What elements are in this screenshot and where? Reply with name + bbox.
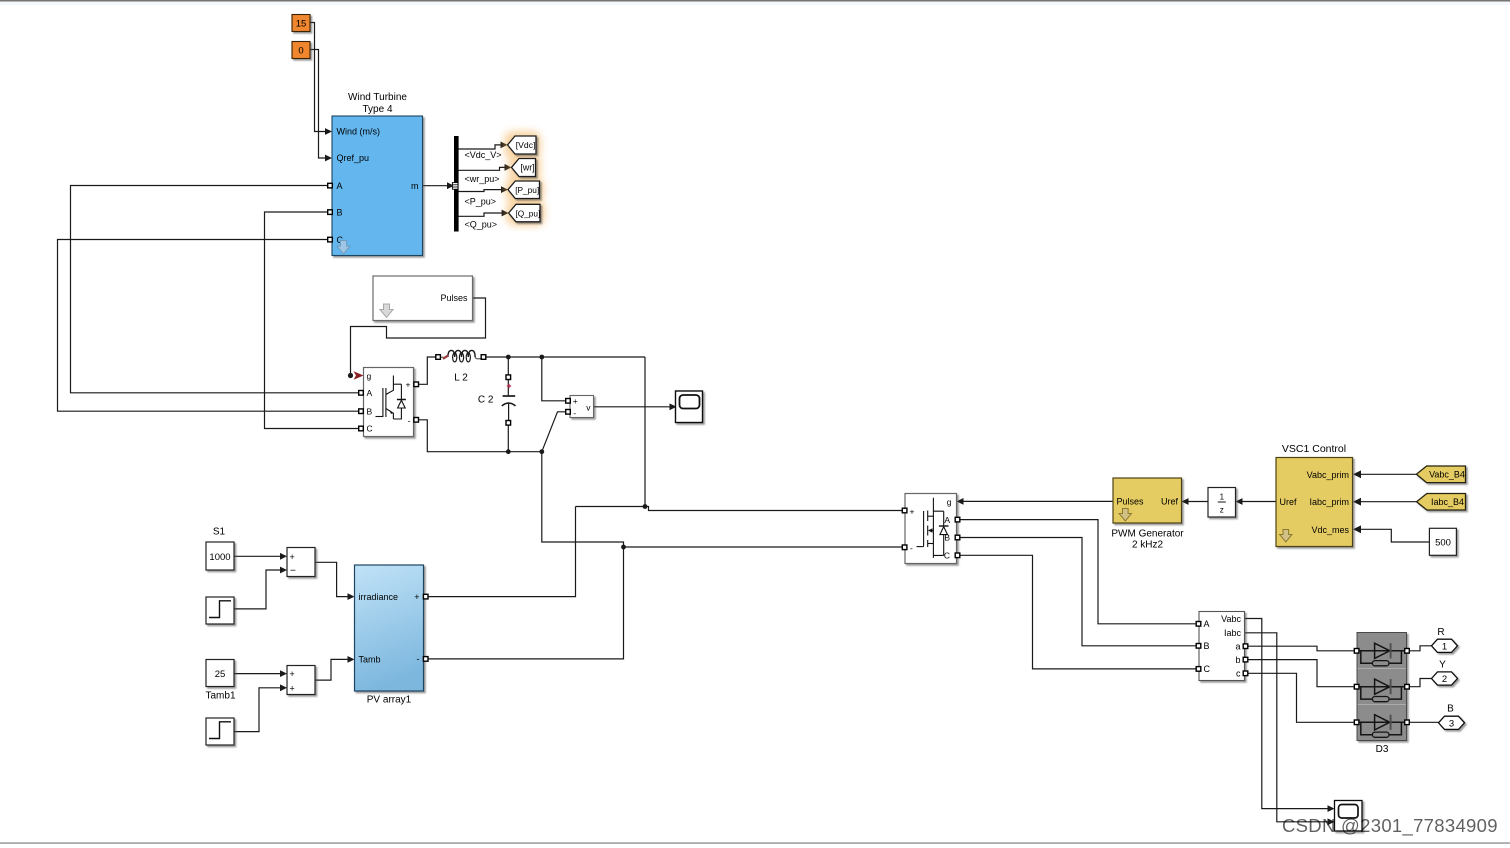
red arrowhead into bridge1 gate	[354, 371, 364, 380]
port square inverter A	[955, 517, 960, 522]
wire constant500 to VSC1 Vdc_mes	[1360, 529, 1430, 542]
svg-text:A: A	[367, 388, 373, 398]
wire top rail junction to voltmeter plus	[542, 357, 567, 401]
svg-text:2 kHz2: 2 kHz2	[1132, 540, 1164, 551]
wire PWM pulses to inverter gate g	[963, 500, 1113, 502]
svg-text:+: +	[290, 669, 295, 679]
sum block sum1	[287, 548, 315, 577]
svg-text:Vabc_prim: Vabc_prim	[1307, 470, 1349, 480]
wire DC top rail down right side	[644, 357, 646, 507]
wire minus node down to PV minus	[428, 547, 624, 659]
svg-text:Iabc_prim: Iabc_prim	[1309, 497, 1349, 507]
svg-text:B: B	[1204, 641, 1210, 651]
port square VI A	[1196, 622, 1201, 627]
svg-text:-: -	[417, 654, 420, 664]
wire constant1000 to sum1 plus	[234, 555, 281, 557]
svg-text:c: c	[1236, 669, 1241, 679]
svg-text:+: +	[406, 380, 411, 390]
wire bus out2 to Goto wr	[459, 167, 507, 170]
Wind Turbine Type 4 block U1	[332, 92, 423, 256]
wire From Iabc_B4 to VSC1	[1360, 501, 1417, 503]
wire unit delay to PWM Uref	[1188, 501, 1208, 503]
PV array1 block	[355, 565, 424, 706]
port square inverter minus	[902, 545, 907, 550]
wire DC top rail L2 to corner	[486, 356, 646, 358]
outport 2 label Y	[1432, 660, 1458, 686]
svg-text:500: 500	[1435, 538, 1451, 549]
arrowhead into Goto wr	[505, 164, 512, 171]
VSC1 Control block	[1276, 443, 1353, 547]
port square D3-2 right	[1405, 684, 1410, 689]
svg-text:A: A	[944, 515, 950, 525]
orange selection glow behind goto tags	[504, 131, 545, 226]
port square inverter B	[955, 535, 960, 540]
port square VI b	[1243, 657, 1248, 662]
svg-text:g: g	[367, 371, 372, 381]
wire PV plus riser	[428, 507, 576, 597]
svg-text:Vdc_mes: Vdc_mes	[1311, 525, 1349, 535]
port square WT C	[328, 237, 333, 242]
svg-text:PV array1: PV array1	[367, 695, 412, 706]
wire bottom rail down to minus node	[542, 452, 624, 547]
svg-text:B: B	[337, 207, 343, 217]
svg-text:+: +	[290, 552, 295, 562]
arrowhead into bus selector	[447, 182, 454, 189]
Goto tag wr	[512, 159, 536, 177]
svg-text:Qref_pu: Qref_pu	[337, 153, 370, 163]
svg-text:<Vdc_V>: <Vdc_V>	[465, 150, 502, 160]
svg-text:Iabc_B4: Iabc_B4	[1431, 497, 1464, 507]
sum block sum2	[287, 666, 315, 695]
constant S1 1000	[206, 527, 234, 571]
arrowhead into Qref_pu input	[325, 155, 332, 162]
wire DC plus node to inverter plus	[576, 507, 903, 511]
arrowhead into scope2 in1	[1328, 805, 1335, 812]
svg-text:2: 2	[1442, 674, 1447, 685]
port square L2 left	[436, 355, 441, 360]
svg-text:+: +	[290, 683, 295, 693]
arrowhead into PV irradiance	[348, 593, 355, 600]
wire VI a to diode D3-1	[1248, 646, 1356, 651]
svg-text:-: -	[910, 543, 913, 553]
outport 3 label B	[1439, 704, 1465, 730]
svg-text:L 2: L 2	[454, 373, 468, 384]
svg-text:[Vdc]: [Vdc]	[516, 140, 536, 150]
svg-text:b: b	[1235, 655, 1240, 665]
diode D3-2	[1357, 679, 1408, 702]
port square D3-2 left	[1354, 684, 1359, 689]
svg-text:VSC1 Control: VSC1 Control	[1282, 443, 1346, 455]
svg-text:-: -	[408, 415, 411, 425]
diode stack D3	[1357, 633, 1408, 756]
wire minus node to inverter minus	[624, 546, 903, 548]
svg-text:1000: 1000	[209, 552, 230, 563]
wire sum1 to PV irradiance	[315, 562, 349, 596]
port square VI a	[1243, 644, 1248, 649]
port square bridge1 minus	[414, 418, 419, 423]
svg-text:C: C	[367, 424, 373, 434]
scope1	[676, 391, 703, 423]
svg-text:B: B	[367, 406, 373, 416]
wire VI b to diode D3-2	[1248, 660, 1356, 687]
wire bus out3 to Goto P_pu	[459, 190, 503, 192]
svg-text:Vabc: Vabc	[1221, 614, 1241, 624]
port square C2 bottom	[506, 421, 511, 426]
svg-text:15: 15	[296, 19, 307, 30]
svg-text:Vabc_B4: Vabc_B4	[1429, 470, 1465, 480]
svg-text:<P_pu>: <P_pu>	[465, 197, 497, 207]
port square voltmeter minus	[566, 410, 571, 415]
wire inverter B to VI measurement B	[960, 538, 1197, 646]
wire constant0 to Qref_pu input	[310, 50, 326, 159]
svg-text:irradiance: irradiance	[359, 592, 399, 602]
arrowhead into Goto Vdc	[501, 142, 508, 149]
arrowhead into Goto Q_pu	[502, 210, 509, 217]
arrowhead into unit delay (points left)	[1236, 498, 1243, 505]
wire voltmeter v to scope1	[594, 406, 671, 408]
Pulses subsystem	[373, 276, 473, 321]
port square WT B	[328, 210, 333, 215]
svg-text:Type 4: Type 4	[362, 104, 392, 115]
port square VI B	[1196, 644, 1201, 649]
svg-text:S1: S1	[213, 527, 226, 538]
wire VSC1 Uref to unit delay	[1242, 501, 1276, 503]
inverter bridge2 U4	[905, 494, 957, 564]
scope2	[1335, 801, 1363, 832]
node top rail / C2	[506, 355, 511, 360]
svg-text:0: 0	[298, 46, 303, 57]
port square PV plus	[423, 594, 428, 599]
wire m output to bus selector	[423, 185, 449, 187]
svg-text:Tamb1: Tamb1	[205, 690, 235, 701]
node DC plus	[643, 504, 648, 509]
arrowhead into VSC1 Vdc_mes (points left)	[1353, 525, 1361, 533]
wire WT port C to bridge1 port B	[58, 240, 360, 412]
capacitor C2	[478, 380, 516, 422]
wire Pulses subsystem to bridge1 gate g	[351, 298, 486, 376]
node bottom rail / C2	[506, 449, 511, 454]
svg-text:PWM Generator: PWM Generator	[1111, 528, 1184, 539]
constant Tamb1 25	[205, 660, 235, 702]
port square L2 right	[481, 355, 486, 360]
PWM Generator block	[1111, 478, 1184, 551]
svg-text:[wr]: [wr]	[520, 163, 534, 173]
outport 1 label R	[1432, 627, 1458, 652]
voltage measurement U3	[570, 396, 594, 419]
constant 500	[1429, 528, 1456, 555]
svg-text:<Q_pu>: <Q_pu>	[465, 219, 498, 229]
arrowhead into sum1 plus	[280, 553, 287, 560]
Goto tag Vdc	[508, 136, 537, 154]
wire diode D3-1 to outport 1	[1409, 646, 1432, 651]
svg-text:3: 3	[1449, 718, 1454, 729]
arrowhead into PV Tamb	[348, 656, 355, 663]
port square bridge1 B	[359, 409, 364, 414]
wire step2 to sum2 plus2	[234, 688, 281, 732]
wire bridge1 plus to L2	[418, 357, 436, 384]
svg-text:C: C	[1204, 664, 1211, 674]
port square inverter plus	[902, 508, 907, 513]
step source step1	[206, 597, 234, 624]
svg-text:Y: Y	[1439, 660, 1446, 671]
constant 0	[292, 42, 310, 59]
arrowhead into VSC1 Iabc_prim (points left)	[1353, 498, 1361, 506]
wire diode D3-2 to outport 2	[1409, 679, 1432, 687]
diode D3-1	[1357, 643, 1408, 666]
svg-text:C: C	[944, 551, 950, 561]
svg-text:+: +	[573, 396, 578, 406]
inverter MOSFET symbol	[917, 498, 949, 558]
unit delay 1/z	[1208, 488, 1236, 518]
svg-text:[P_pu]: [P_pu]	[515, 185, 539, 195]
node top rail / voltmeter plus	[539, 355, 544, 360]
port square inverter C	[955, 553, 960, 558]
step source step2	[206, 718, 234, 745]
svg-text:1: 1	[1442, 641, 1447, 652]
From tag Vabc_B4	[1416, 466, 1465, 483]
wire step1 to sum1 minus	[234, 570, 281, 609]
constant 15	[292, 15, 310, 32]
svg-text:+: +	[910, 506, 915, 516]
wire WT port B to bridge1 port C	[265, 212, 360, 429]
svg-text:Wind (m/s): Wind (m/s)	[337, 127, 381, 137]
svg-text:Pulses: Pulses	[1117, 497, 1145, 507]
port square voltmeter plus	[566, 399, 571, 404]
svg-text:25: 25	[215, 669, 226, 680]
svg-text:A: A	[337, 181, 343, 191]
bus selector	[452, 136, 458, 232]
node DC minus	[621, 545, 626, 550]
svg-text:B: B	[1447, 704, 1454, 715]
wire C2 top connection	[507, 357, 509, 375]
three-phase VI measurement U5	[1199, 612, 1245, 681]
wire From Vabc_B4 to VSC1	[1360, 473, 1417, 475]
wire VI Vabc to scope2 in1	[1245, 619, 1329, 809]
svg-text:-: -	[573, 408, 576, 418]
svg-text:CSDN @2301_77834909: CSDN @2301_77834909	[1282, 815, 1498, 837]
svg-text:[Q_pu]: [Q_pu]	[515, 208, 540, 218]
wire inverter A to VI measurement A	[960, 520, 1197, 624]
svg-text:D3: D3	[1376, 744, 1389, 755]
arrowhead into PWM Uref (points left)	[1182, 498, 1189, 505]
port square WT A	[328, 183, 333, 188]
arrowhead into inverter gate (points left)	[957, 498, 964, 505]
arrowhead into VSC1 Vabc_prim (points left)	[1353, 470, 1361, 478]
arrowhead into sum2 plus2	[280, 684, 287, 691]
arrowhead into scope1	[670, 403, 677, 410]
inductor L2	[441, 350, 482, 383]
svg-text:z: z	[1220, 506, 1224, 515]
svg-text:+: +	[414, 592, 419, 602]
wire bottom rail junction diagonal to voltmeter minus	[542, 412, 567, 452]
port square VI C	[1196, 667, 1201, 672]
wire WT port A to bridge1 port A	[71, 186, 360, 393]
Goto tag P_pu	[508, 181, 540, 199]
svg-text:R: R	[1437, 627, 1444, 638]
wire constant15 to Wind input	[310, 23, 326, 132]
wire constant25 to sum2 plus1	[234, 673, 281, 675]
port square PV minus	[423, 657, 428, 662]
node at bridge1 gate	[348, 373, 353, 378]
bridge1 boost converter U2	[364, 368, 414, 437]
port square bridge1 C	[359, 426, 364, 431]
diode D3-3	[1357, 715, 1408, 738]
arrowhead into Goto P_pu	[501, 186, 508, 193]
wire C2 bottom connection	[507, 425, 509, 452]
wire bus out4 to Goto Q_pu	[459, 213, 504, 216]
port square D3-3 right	[1405, 720, 1410, 725]
port square bridge1 plus	[414, 382, 419, 387]
arrowhead into sum1 minus	[280, 567, 287, 574]
From tag Iabc_B4	[1417, 494, 1466, 511]
port square VI c	[1243, 671, 1248, 676]
svg-text:Tamb: Tamb	[359, 655, 381, 665]
svg-text:<wr_pu>: <wr_pu>	[465, 174, 500, 184]
arrowhead into scope2 in2	[1328, 818, 1335, 825]
bridge1 IGBT symbol	[376, 376, 406, 420]
port square D3-1 left	[1354, 649, 1359, 654]
svg-text:−: −	[290, 565, 296, 576]
port square D3-1 right	[1405, 649, 1410, 654]
svg-text:Uref: Uref	[1280, 497, 1298, 507]
wire VI Iabc to scope2 in2	[1245, 633, 1329, 822]
wire VI c to diode D3-3	[1248, 673, 1356, 722]
arrowhead into sum2 plus1	[280, 670, 287, 677]
svg-text:Uref: Uref	[1161, 497, 1179, 507]
port square C2 top	[506, 375, 511, 380]
port square D3-3 left	[1354, 720, 1359, 725]
svg-text:Iabc: Iabc	[1224, 628, 1242, 638]
wire bridge1 minus to bottom rail	[418, 420, 542, 452]
wire bus out1 to Goto Vdc	[459, 145, 503, 149]
port square bridge1 A	[359, 391, 364, 396]
wire diode D3-3 to outport 3	[1409, 721, 1439, 723]
svg-text:Wind Turbine: Wind Turbine	[348, 92, 407, 103]
svg-text:1: 1	[1220, 493, 1225, 502]
svg-text:m: m	[411, 181, 419, 191]
svg-text:g: g	[947, 497, 952, 507]
svg-text:C 2: C 2	[478, 395, 494, 406]
node bottom rail branch	[539, 449, 544, 454]
svg-text:Pulses: Pulses	[440, 293, 468, 303]
Goto tag Q_pu	[509, 204, 541, 222]
wire sum2 to PV Tamb	[315, 659, 349, 680]
wire inverter C to VI measurement C	[960, 555, 1197, 669]
svg-text:a: a	[1235, 642, 1240, 652]
svg-text:A: A	[1204, 619, 1210, 629]
arrowhead into Wind input	[325, 128, 332, 135]
